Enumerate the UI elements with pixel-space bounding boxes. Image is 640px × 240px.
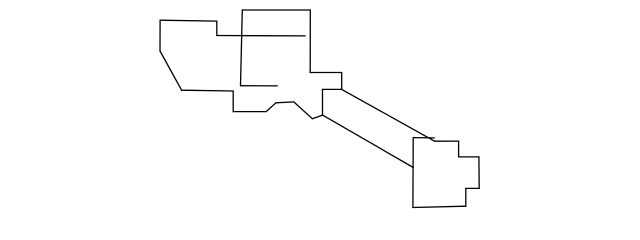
wire right edge of top panel xyxy=(309,10,311,73)
wire rise diagonal xyxy=(266,103,276,112)
wire shoulder horizontal xyxy=(310,72,342,74)
wire junction vertical xyxy=(322,89,324,115)
wire end block upper shelf xyxy=(435,140,459,142)
wire slanted left edge of top panel xyxy=(241,10,243,86)
wire open bottom edge of top panel xyxy=(241,85,278,87)
wire end block right edge xyxy=(478,157,480,189)
wire V-dip rising diagonal xyxy=(312,115,322,119)
wire top edge of left body xyxy=(160,19,217,22)
wire shelf horizontal right xyxy=(323,88,342,90)
wire end block bottom edge xyxy=(413,206,466,207)
wire left edge of left body xyxy=(159,20,161,51)
wire end block notch vertical xyxy=(465,188,467,206)
wire lower arm diagonal xyxy=(323,115,414,167)
wire top edge of top panel xyxy=(242,9,310,11)
wire top edge of end block xyxy=(413,137,434,139)
wire short shelf horizontal xyxy=(276,101,294,104)
wire step down at right of top edge xyxy=(216,21,218,35)
wire end block bump top xyxy=(459,156,479,158)
wire notch bottom horizontal xyxy=(233,111,266,113)
wire notch vertical xyxy=(232,91,234,112)
wire long horizontal rail xyxy=(217,35,305,37)
wire lower-left diagonal edge xyxy=(160,51,182,90)
wire step vertical up xyxy=(341,73,343,90)
wire V-dip falling diagonal xyxy=(294,102,313,119)
wire upper arm diagonal xyxy=(342,89,435,141)
wire end block left edge xyxy=(412,138,414,208)
wire end block bump bottom xyxy=(466,187,479,189)
wire end block step vertical xyxy=(458,141,460,157)
wire bottom edge of left body xyxy=(182,89,234,92)
